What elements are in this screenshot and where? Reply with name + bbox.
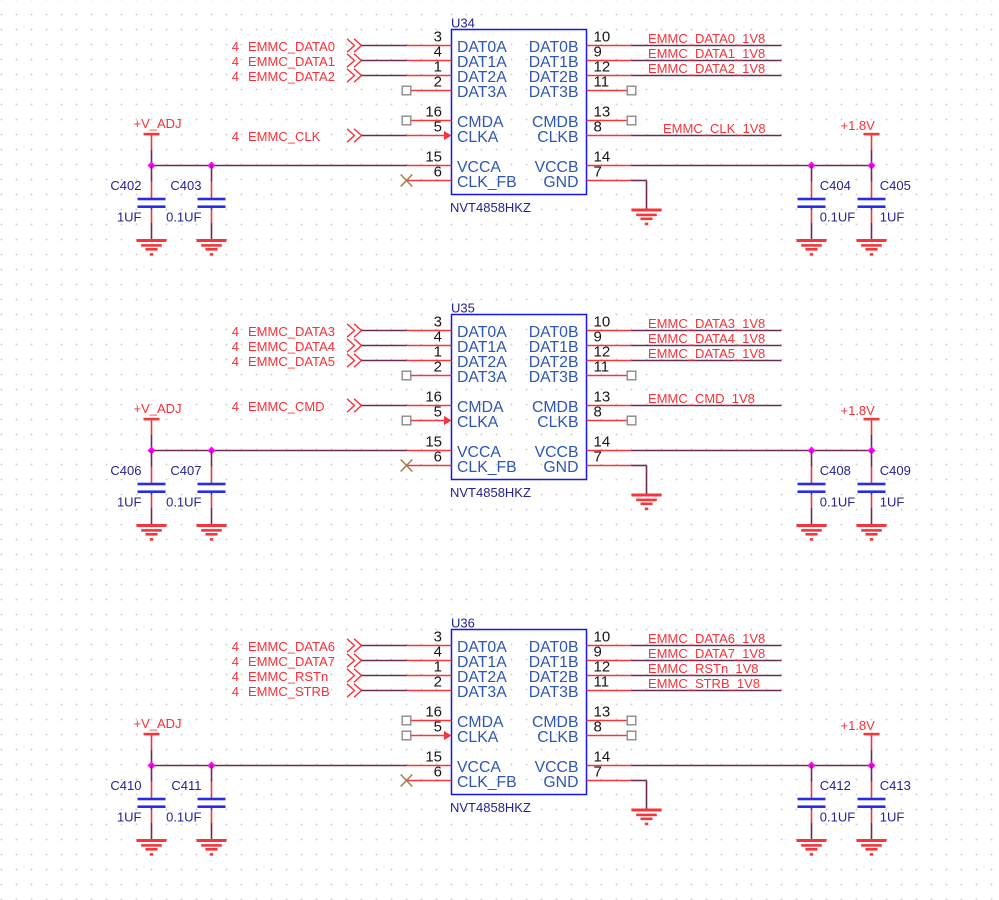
C413 reference label bbox=[880, 778, 911, 793]
C412 value 0.1UF bbox=[820, 810, 855, 825]
svg-text:+V_ADJ: +V_ADJ bbox=[134, 116, 182, 131]
svg-text:1UF: 1UF bbox=[117, 810, 142, 825]
svg-text:EMMC_DATA1_1V8: EMMC_DATA1_1V8 bbox=[648, 46, 765, 61]
svg-text:C406: C406 bbox=[110, 463, 141, 478]
U36 pin 9 (DAT1B) bbox=[529, 644, 632, 672]
svg-text:EMMC_STRB: EMMC_STRB bbox=[248, 684, 330, 699]
wire EMMC_DATA6_1V8 bbox=[632, 645, 782, 647]
U35 pin 6 (CLK_FB) bbox=[407, 449, 517, 477]
wire rail to C408 bbox=[811, 451, 813, 467]
off-page connector EMMC_RSTn bbox=[347, 669, 362, 682]
U35 pin 13 (CMDB) bbox=[532, 389, 632, 417]
svg-text:DAT3B: DAT3B bbox=[529, 684, 579, 701]
off-page connector EMMC_DATA7 bbox=[347, 654, 362, 667]
svg-text:EMMC_DATA4: EMMC_DATA4 bbox=[248, 339, 335, 354]
power symbol +V_ADJ bbox=[134, 716, 182, 750]
wire +1.8V stem bbox=[871, 435, 873, 451]
svg-text:U35: U35 bbox=[451, 301, 475, 316]
U35 pin 3 (DAT0A) bbox=[407, 314, 508, 342]
svg-text:NVT4858HKZ: NVT4858HKZ bbox=[450, 800, 531, 815]
junction rail at C407 bbox=[208, 447, 216, 455]
C408 reference label bbox=[820, 463, 851, 478]
wire rail to C410 bbox=[151, 766, 153, 782]
C407 reference label bbox=[170, 463, 201, 478]
wire rail to C411 bbox=[211, 766, 213, 782]
no-connect square at U35 pin 11 bbox=[627, 371, 636, 380]
U35 part number NVT4858HKZ bbox=[450, 485, 531, 500]
no-connect square at U36 pin 16 bbox=[402, 716, 411, 725]
wire +1.8V stem bbox=[871, 750, 873, 766]
svg-text:4: 4 bbox=[232, 684, 239, 699]
ground symbol below C410 bbox=[137, 839, 167, 856]
svg-text:DAT3A: DAT3A bbox=[457, 684, 507, 701]
svg-text:1UF: 1UF bbox=[117, 495, 142, 510]
U34 pin 14 (VCCB) bbox=[535, 149, 632, 177]
svg-text:GND: GND bbox=[543, 774, 578, 791]
U35 reference designator bbox=[451, 301, 475, 316]
svg-text:NVT4858HKZ: NVT4858HKZ bbox=[450, 485, 531, 500]
wire U35 VCCB rail to +1.8V bbox=[632, 450, 872, 452]
wire +V_ADJ rail to U36 VCCA bbox=[152, 765, 407, 767]
svg-text:EMMC_RSTn: EMMC_RSTn bbox=[248, 669, 328, 684]
svg-text:EMMC_DATA1: EMMC_DATA1 bbox=[248, 54, 335, 69]
capacitor C410 1UF bbox=[138, 782, 166, 824]
U36 pin 15 (VCCA) bbox=[407, 749, 502, 777]
off-page connector EMMC_CLK bbox=[347, 129, 362, 142]
ground symbol below C408 bbox=[797, 524, 827, 541]
wire EMMC_STRB_1V8 bbox=[632, 690, 782, 692]
svg-text:EMMC_DATA5: EMMC_DATA5 bbox=[248, 354, 335, 369]
C406 reference label bbox=[110, 463, 141, 478]
no-connect square at U35 pin 5 bbox=[402, 416, 411, 425]
U35 pin 4 (DAT1A) bbox=[407, 329, 508, 357]
power symbol +V_ADJ bbox=[134, 116, 182, 150]
wire EMMC_DATA0 to U34 bbox=[362, 45, 407, 47]
junction rail at C408 bbox=[808, 447, 816, 455]
svg-text:EMMC_DATA4_1V8: EMMC_DATA4_1V8 bbox=[648, 331, 765, 346]
wire C403 to ground bbox=[211, 223, 213, 241]
svg-text:C408: C408 bbox=[820, 463, 851, 478]
svg-text:2: 2 bbox=[434, 674, 442, 691]
U36 pin 10 (DAT0B) bbox=[529, 629, 632, 657]
U34 part number NVT4858HKZ bbox=[450, 200, 531, 215]
capacitor C408 0.1UF bbox=[798, 467, 826, 509]
svg-text:CLKA: CLKA bbox=[457, 414, 499, 431]
svg-text:5: 5 bbox=[434, 404, 442, 421]
U35 pin 8 (CLKB) bbox=[537, 404, 627, 432]
net label EMMC_DATA6_1V8 bbox=[648, 631, 765, 646]
svg-text:+1.8V: +1.8V bbox=[841, 118, 876, 133]
wire C410 to ground bbox=[151, 823, 153, 841]
U35 pin 10 (DAT0B) bbox=[529, 314, 632, 342]
svg-text:2: 2 bbox=[434, 359, 442, 376]
svg-text:C412: C412 bbox=[820, 778, 851, 793]
ground symbol below C411 bbox=[197, 839, 227, 856]
net label EMMC_STRB_1V8 bbox=[648, 676, 760, 691]
wire U36 GND to ground bbox=[632, 781, 647, 810]
wire rail to C413 bbox=[871, 766, 873, 782]
svg-text:EMMC_CLK_1V8: EMMC_CLK_1V8 bbox=[663, 121, 766, 136]
ground symbol below C406 bbox=[137, 524, 167, 541]
svg-text:0.1UF: 0.1UF bbox=[820, 210, 855, 225]
svg-text:1UF: 1UF bbox=[117, 210, 142, 225]
net label 4 EMMC_CLK bbox=[232, 129, 321, 144]
C402 reference label bbox=[110, 178, 141, 193]
net label 4 EMMC_DATA6 bbox=[232, 639, 335, 654]
svg-text:EMMC_CMD_1V8: EMMC_CMD_1V8 bbox=[648, 391, 755, 406]
junction +1.8V at C413 bbox=[868, 762, 876, 770]
net label EMMC_DATA2_1V8 bbox=[648, 61, 765, 76]
U36 pin 3 (DAT0A) bbox=[407, 629, 508, 657]
svg-text:7: 7 bbox=[594, 164, 602, 181]
wire rail to C409 bbox=[871, 451, 873, 467]
off-page connector EMMC_DATA2 bbox=[347, 69, 362, 82]
svg-text:C404: C404 bbox=[820, 178, 851, 193]
U35 pin 12 (DAT2B) bbox=[529, 344, 632, 372]
svg-text:CLKB: CLKB bbox=[537, 414, 578, 431]
svg-text:EMMC_DATA7: EMMC_DATA7 bbox=[248, 654, 335, 669]
svg-text:0.1UF: 0.1UF bbox=[166, 810, 201, 825]
ground symbol below C409 bbox=[857, 524, 887, 541]
svg-text:0.1UF: 0.1UF bbox=[820, 810, 855, 825]
IC U35 NVT4858HKZ body bbox=[452, 315, 587, 480]
ground symbol below C402 bbox=[137, 239, 167, 256]
C411 value 0.1UF bbox=[166, 810, 201, 825]
svg-text:GND: GND bbox=[543, 459, 578, 476]
U36 part number NVT4858HKZ bbox=[450, 800, 531, 815]
wire rail to C403 bbox=[211, 166, 213, 182]
C413 value 1UF bbox=[880, 810, 905, 825]
svg-text:4: 4 bbox=[232, 639, 239, 654]
U34 pin 16 (CMDA) bbox=[411, 104, 504, 132]
U34 pin 6 (CLK_FB) bbox=[407, 164, 517, 192]
U36 pin 6 (CLK_FB) bbox=[407, 764, 517, 792]
wire EMMC_RSTn_1V8 bbox=[632, 675, 782, 677]
U34 pin 1 (DAT2A) bbox=[407, 59, 508, 87]
svg-text:4: 4 bbox=[232, 69, 239, 84]
U35 pin 7 (GND) bbox=[543, 449, 631, 477]
svg-text:4: 4 bbox=[232, 669, 239, 684]
svg-text:EMMC_DATA0_1V8: EMMC_DATA0_1V8 bbox=[648, 31, 765, 46]
off-page connector EMMC_DATA6 bbox=[347, 639, 362, 652]
svg-text:EMMC_STRB_1V8: EMMC_STRB_1V8 bbox=[648, 676, 760, 691]
svg-text:5: 5 bbox=[434, 719, 442, 736]
wire EMMC_DATA2_1V8 bbox=[632, 75, 782, 77]
svg-text:+V_ADJ: +V_ADJ bbox=[134, 716, 182, 731]
junction rail at C411 bbox=[208, 762, 216, 770]
svg-text:EMMC_DATA2_1V8: EMMC_DATA2_1V8 bbox=[648, 61, 765, 76]
wire +V_ADJ stem bbox=[151, 750, 153, 766]
svg-text:4: 4 bbox=[232, 354, 239, 369]
wire +V_ADJ rail to U34 VCCA bbox=[152, 165, 407, 167]
U35 pin 1 (DAT2A) bbox=[407, 344, 508, 372]
wire EMMC_DATA7_1V8 bbox=[632, 660, 782, 662]
svg-text:C405: C405 bbox=[880, 178, 911, 193]
svg-text:EMMC_DATA3_1V8: EMMC_DATA3_1V8 bbox=[648, 316, 765, 331]
ground symbol below C403 bbox=[197, 239, 227, 256]
svg-text:EMMC_DATA2: EMMC_DATA2 bbox=[248, 69, 335, 84]
net label 4 EMMC_DATA5 bbox=[232, 354, 335, 369]
wire C411 to ground bbox=[211, 823, 213, 841]
net label 4 EMMC_RSTn bbox=[232, 669, 328, 684]
wire EMMC_DATA7 to U36 bbox=[362, 660, 407, 662]
svg-text:DAT3B: DAT3B bbox=[529, 84, 579, 101]
IC U36 NVT4858HKZ body bbox=[452, 630, 587, 795]
wire C402 to ground bbox=[151, 223, 153, 241]
svg-text:4: 4 bbox=[232, 324, 239, 339]
wire rail to C407 bbox=[211, 451, 213, 467]
svg-text:EMMC_DATA6_1V8: EMMC_DATA6_1V8 bbox=[648, 631, 765, 646]
off-page connector EMMC_DATA4 bbox=[347, 339, 362, 352]
svg-text:CLK_FB: CLK_FB bbox=[457, 459, 517, 476]
U35 pin 14 (VCCB) bbox=[535, 434, 632, 462]
C406 value 1UF bbox=[117, 495, 142, 510]
U34 pin 13 (CMDB) bbox=[532, 104, 627, 132]
net label 4 EMMC_DATA7 bbox=[232, 654, 335, 669]
C404 reference label bbox=[820, 178, 851, 193]
svg-text:6: 6 bbox=[434, 164, 442, 181]
U36 pin 12 (DAT2B) bbox=[529, 659, 632, 687]
svg-text:0.1UF: 0.1UF bbox=[166, 210, 201, 225]
junction +1.8V at C409 bbox=[868, 447, 876, 455]
U34 pin 5 (CLKA) bbox=[407, 119, 499, 147]
wire EMMC_DATA4 to U35 bbox=[362, 345, 407, 347]
wire rail to C402 bbox=[151, 166, 153, 182]
wire EMMC_RSTn to U36 bbox=[362, 675, 407, 677]
capacitor C412 0.1UF bbox=[798, 782, 826, 824]
U36 pin 8 (CLKB) bbox=[537, 719, 627, 747]
wire C404 to ground bbox=[811, 223, 813, 241]
wire EMMC_DATA4_1V8 bbox=[632, 345, 782, 347]
no-connect X on U35 CLK_FB bbox=[401, 460, 413, 472]
C409 reference label bbox=[880, 463, 911, 478]
C409 value 1UF bbox=[880, 495, 905, 510]
svg-text:C413: C413 bbox=[880, 778, 911, 793]
svg-text:1UF: 1UF bbox=[880, 495, 905, 510]
svg-text:11: 11 bbox=[594, 74, 610, 91]
no-connect X on U36 CLK_FB bbox=[401, 775, 413, 787]
svg-text:+1.8V: +1.8V bbox=[841, 718, 876, 733]
svg-text:GND: GND bbox=[543, 174, 578, 191]
wire EMMC_DATA5_1V8 bbox=[632, 360, 782, 362]
capacitor C403 0.1UF bbox=[198, 182, 226, 224]
svg-text:U36: U36 bbox=[451, 616, 475, 631]
ground symbol below C404 bbox=[797, 239, 827, 256]
wire C405 to ground bbox=[871, 223, 873, 241]
svg-text:CLKA: CLKA bbox=[457, 129, 499, 146]
svg-text:4: 4 bbox=[232, 39, 239, 54]
wire rail to C412 bbox=[811, 766, 813, 782]
svg-text:0.1UF: 0.1UF bbox=[820, 495, 855, 510]
ground symbol below C413 bbox=[857, 839, 887, 856]
U35 pin 15 (VCCA) bbox=[407, 434, 502, 462]
U36 pin 7 (GND) bbox=[543, 764, 631, 792]
svg-text:8: 8 bbox=[594, 119, 602, 136]
power symbol +V_ADJ bbox=[134, 401, 182, 435]
wire C409 to ground bbox=[871, 508, 873, 526]
U34 pin 3 (DAT0A) bbox=[407, 29, 508, 57]
capacitor C406 1UF bbox=[138, 467, 166, 509]
U36 pin 5 (CLKA) bbox=[411, 719, 499, 747]
svg-text:+V_ADJ: +V_ADJ bbox=[134, 401, 182, 416]
ground symbol at U35 GND bbox=[632, 494, 662, 511]
ground symbol at U36 GND bbox=[632, 809, 662, 826]
off-page connector EMMC_DATA5 bbox=[347, 354, 362, 367]
junction rail at C412 bbox=[808, 762, 816, 770]
svg-text:CLKA: CLKA bbox=[457, 729, 499, 746]
wire C406 to ground bbox=[151, 508, 153, 526]
no-connect square at U35 pin 8 bbox=[627, 416, 636, 425]
capacitor C405 1UF bbox=[858, 182, 886, 224]
net label EMMC_DATA5_1V8 bbox=[648, 346, 765, 361]
svg-text:CLK_FB: CLK_FB bbox=[457, 174, 517, 191]
no-connect square at U34 pin 11 bbox=[627, 86, 636, 95]
svg-text:0.1UF: 0.1UF bbox=[166, 495, 201, 510]
C403 value 0.1UF bbox=[166, 210, 201, 225]
junction rail at C404 bbox=[808, 162, 816, 170]
ground symbol at U34 GND bbox=[632, 209, 662, 226]
U35 pin 11 (DAT3B) bbox=[529, 359, 627, 387]
svg-text:4: 4 bbox=[232, 399, 239, 414]
U36 pin 2 (DAT3A) bbox=[407, 674, 508, 702]
capacitor C407 0.1UF bbox=[198, 467, 226, 509]
wire +V_ADJ stem bbox=[151, 150, 153, 166]
net label EMMC_DATA4_1V8 bbox=[648, 331, 765, 346]
ground symbol below C412 bbox=[797, 839, 827, 856]
U34 pin 7 (GND) bbox=[543, 164, 631, 192]
net label 4 EMMC_CMD bbox=[232, 399, 325, 414]
C412 reference label bbox=[820, 778, 851, 793]
U35 pin 5 (CLKA) bbox=[411, 404, 499, 432]
net label EMMC_CLK_1V8 bbox=[663, 121, 766, 136]
wire +1.8V stem bbox=[871, 150, 873, 166]
C410 reference label bbox=[110, 778, 141, 793]
net label EMMC_DATA1_1V8 bbox=[648, 46, 765, 61]
ground symbol below C407 bbox=[197, 524, 227, 541]
svg-text:8: 8 bbox=[594, 404, 602, 421]
svg-text:EMMC_RSTn_1V8: EMMC_RSTn_1V8 bbox=[648, 661, 759, 676]
junction +V_ADJ at C402 bbox=[148, 162, 156, 170]
no-connect square at U34 pin 2 bbox=[402, 86, 411, 95]
C407 value 0.1UF bbox=[166, 495, 201, 510]
wire EMMC_DATA1_1V8 bbox=[632, 60, 782, 62]
svg-text:6: 6 bbox=[434, 764, 442, 781]
svg-text:6: 6 bbox=[434, 449, 442, 466]
U34 pin 10 (DAT0B) bbox=[529, 29, 632, 57]
wire +V_ADJ stem bbox=[151, 435, 153, 451]
C405 reference label bbox=[880, 178, 911, 193]
U34 pin 9 (DAT1B) bbox=[529, 44, 632, 72]
wire C408 to ground bbox=[811, 508, 813, 526]
wire EMMC_DATA1 to U34 bbox=[362, 60, 407, 62]
capacitor C404 0.1UF bbox=[798, 182, 826, 224]
off-page connector EMMC_STRB bbox=[347, 684, 362, 697]
svg-text:NVT4858HKZ: NVT4858HKZ bbox=[450, 200, 531, 215]
U36 pin 1 (DAT2A) bbox=[407, 659, 508, 687]
power symbol +1.8V bbox=[841, 118, 880, 150]
svg-text:CLKB: CLKB bbox=[537, 729, 578, 746]
no-connect square at U34 pin 13 bbox=[627, 116, 636, 125]
svg-text:7: 7 bbox=[594, 764, 602, 781]
junction +V_ADJ at C410 bbox=[148, 762, 156, 770]
svg-text:5: 5 bbox=[434, 119, 442, 136]
net label EMMC_DATA7_1V8 bbox=[648, 646, 765, 661]
no-connect square at U36 pin 13 bbox=[627, 716, 636, 725]
no-connect square at U36 pin 5 bbox=[402, 731, 411, 740]
net label EMMC_RSTn_1V8 bbox=[648, 661, 759, 676]
power symbol +1.8V bbox=[841, 403, 880, 435]
U34 pin 2 (DAT3A) bbox=[411, 74, 507, 102]
svg-text:C402: C402 bbox=[110, 178, 141, 193]
wire EMMC_DATA0_1V8 bbox=[632, 45, 782, 47]
wire U34 GND to ground bbox=[632, 181, 647, 210]
svg-text:EMMC_CLK: EMMC_CLK bbox=[248, 129, 321, 144]
capacitor C413 1UF bbox=[858, 782, 886, 824]
U34 reference designator bbox=[451, 16, 475, 31]
U36 reference designator bbox=[451, 616, 475, 631]
U35 pin 9 (DAT1B) bbox=[529, 329, 632, 357]
svg-text:U34: U34 bbox=[451, 16, 475, 31]
net label EMMC_DATA0_1V8 bbox=[648, 31, 765, 46]
C405 value 1UF bbox=[880, 210, 905, 225]
wire rail to C406 bbox=[151, 451, 153, 467]
svg-text:C403: C403 bbox=[170, 178, 201, 193]
U34 pin 11 (DAT3B) bbox=[529, 74, 627, 102]
svg-text:CLKB: CLKB bbox=[537, 129, 578, 146]
capacitor C411 0.1UF bbox=[198, 782, 226, 824]
no-connect square at U34 pin 16 bbox=[402, 116, 411, 125]
wire U35 GND to ground bbox=[632, 466, 647, 495]
svg-text:DAT3B: DAT3B bbox=[529, 369, 579, 386]
U36 pin 16 (CMDA) bbox=[411, 704, 504, 732]
wire EMMC_DATA2 to U34 bbox=[362, 75, 407, 77]
capacitor C409 1UF bbox=[858, 467, 886, 509]
net label 4 EMMC_DATA3 bbox=[232, 324, 335, 339]
no-connect square at U36 pin 8 bbox=[627, 731, 636, 740]
wire EMMC_CLK to U34 bbox=[362, 135, 407, 137]
U34 pin 8 (CLKB) bbox=[537, 119, 631, 147]
U34 pin 15 (VCCA) bbox=[407, 149, 502, 177]
net label 4 EMMC_DATA0 bbox=[232, 39, 335, 54]
wire EMMC_DATA5 to U35 bbox=[362, 360, 407, 362]
C411 reference label bbox=[171, 778, 201, 793]
svg-text:EMMC_DATA3: EMMC_DATA3 bbox=[248, 324, 335, 339]
svg-text:8: 8 bbox=[594, 719, 602, 736]
svg-text:1UF: 1UF bbox=[880, 210, 905, 225]
C402 value 1UF bbox=[117, 210, 142, 225]
power symbol +1.8V bbox=[841, 718, 880, 750]
IC U34 NVT4858HKZ body bbox=[452, 30, 587, 195]
U35 pin 16 (CMDA) bbox=[407, 389, 504, 417]
svg-text:C411: C411 bbox=[171, 778, 201, 793]
svg-text:CLK_FB: CLK_FB bbox=[457, 774, 517, 791]
wire EMMC_DATA3 to U35 bbox=[362, 330, 407, 332]
wire EMMC_DATA3_1V8 bbox=[632, 330, 782, 332]
svg-text:7: 7 bbox=[594, 449, 602, 466]
svg-text:4: 4 bbox=[232, 339, 239, 354]
svg-text:EMMC_DATA6: EMMC_DATA6 bbox=[248, 639, 335, 654]
svg-text:1UF: 1UF bbox=[880, 810, 905, 825]
no-connect X on U34 CLK_FB bbox=[401, 175, 413, 187]
net label EMMC_DATA3_1V8 bbox=[648, 316, 765, 331]
off-page connector EMMC_DATA1 bbox=[347, 54, 362, 67]
wire C412 to ground bbox=[811, 823, 813, 841]
off-page connector EMMC_DATA0 bbox=[347, 39, 362, 52]
wire +V_ADJ rail to U35 VCCA bbox=[152, 450, 407, 452]
C404 value 0.1UF bbox=[820, 210, 855, 225]
svg-text:4: 4 bbox=[232, 654, 239, 669]
wire rail to C404 bbox=[811, 166, 813, 182]
